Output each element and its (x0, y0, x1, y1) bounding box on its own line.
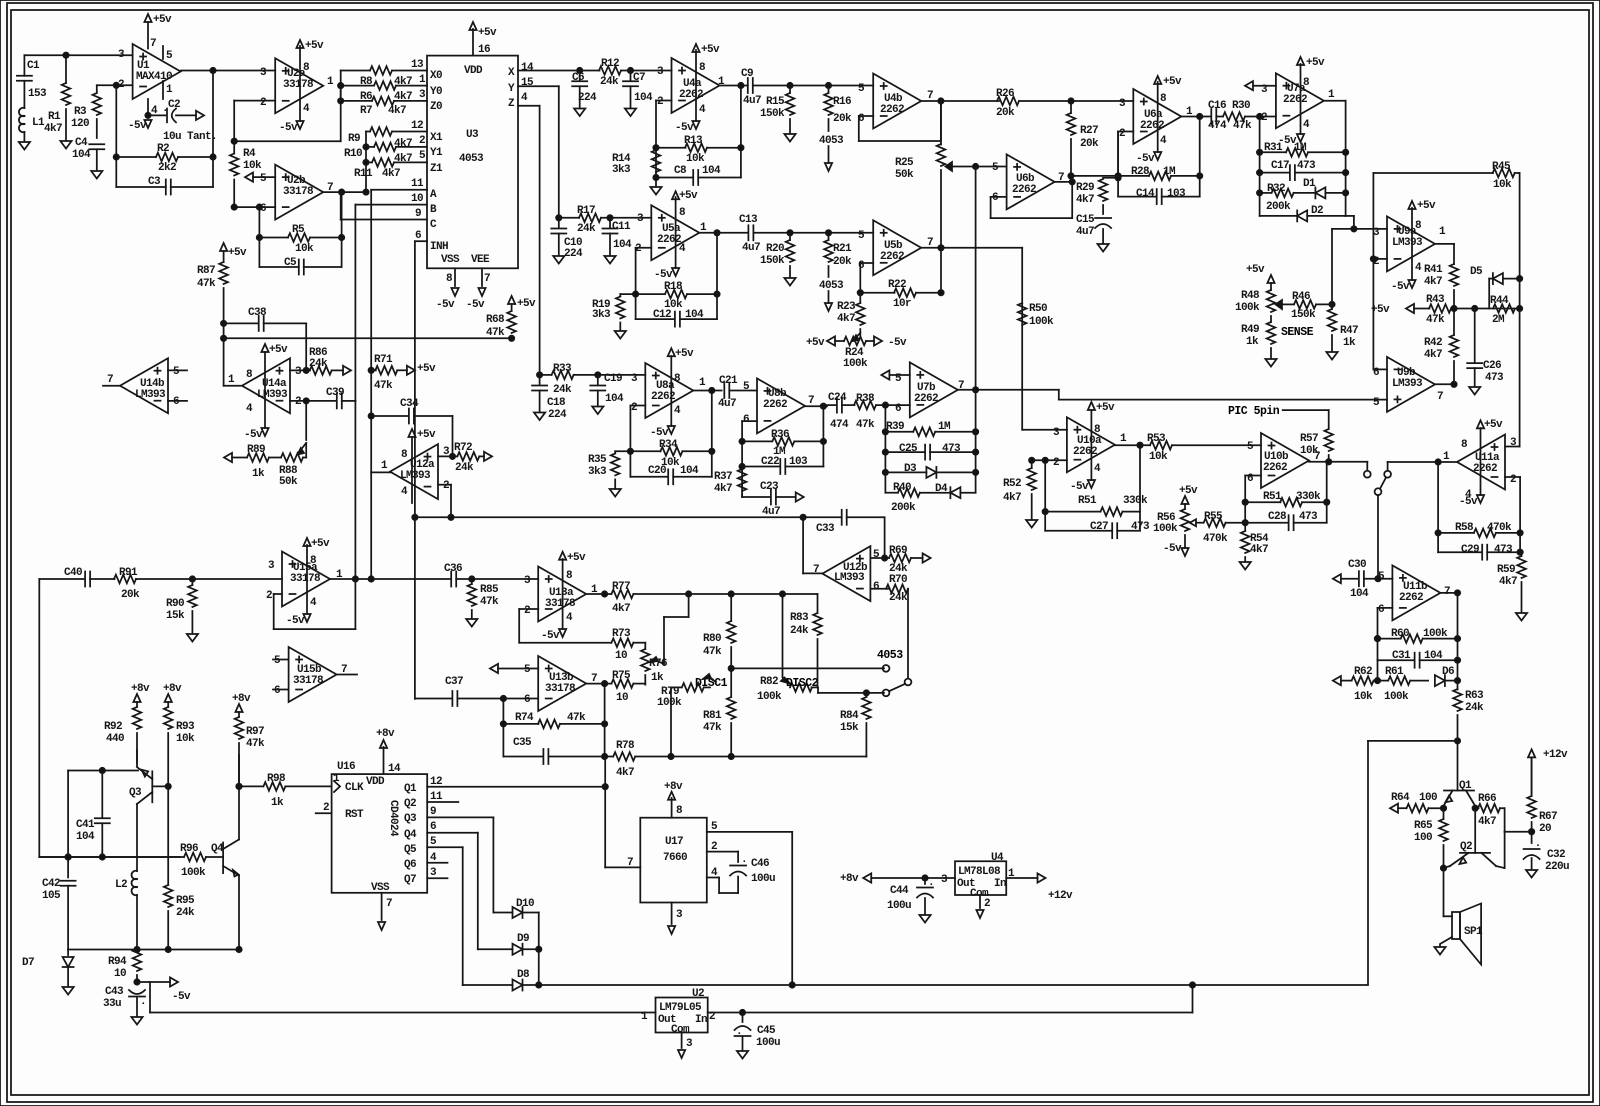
svg-text:4: 4 (711, 867, 718, 879)
svg-text:+5v: +5v (806, 337, 825, 349)
svg-text:8: 8 (1415, 220, 1422, 232)
svg-text:4: 4 (246, 403, 253, 415)
node dot C19 (595, 372, 600, 377)
resistor R21 (826, 230, 831, 235)
node wire -5v rail (68, 949, 239, 951)
4053 switch out (1366, 462, 1368, 470)
capacitor C22 (742, 466, 780, 468)
svg-text:5: 5 (524, 664, 531, 676)
resistor R8 (341, 70, 370, 72)
svg-text:104: 104 (613, 239, 632, 251)
U17 pin7 (605, 866, 640, 868)
node dot C11 (607, 215, 612, 220)
svg-text:.: . (140, 996, 146, 1008)
ground under R52 (1026, 520, 1037, 528)
+12v connector (1038, 873, 1046, 882)
DISC2 wire (818, 692, 884, 694)
svg-text:R20: R20 (766, 243, 784, 255)
wire R28 node up (1117, 132, 1119, 178)
capacitor C8 (656, 177, 693, 179)
U2b pin6 wire (234, 206, 275, 208)
svg-text:-5v: -5v (244, 429, 263, 441)
svg-text:3: 3 (1053, 427, 1060, 439)
diode D2 wire (1260, 215, 1298, 217)
feedback right riser (740, 86, 742, 178)
svg-text:8: 8 (303, 62, 310, 74)
svg-text:440: 440 (106, 733, 124, 745)
svg-text:C26: C26 (1483, 360, 1501, 372)
svg-text:R66: R66 (1478, 793, 1496, 805)
svg-text:6: 6 (430, 821, 436, 833)
L2 to rail (136, 895, 138, 950)
C30 connector (1333, 574, 1341, 583)
svg-text:13: 13 (411, 59, 424, 71)
svg-text:C36: C36 (444, 563, 462, 575)
svg-text:7: 7 (1444, 586, 1450, 598)
svg-text:16: 16 (478, 44, 490, 56)
ground under C18 (534, 413, 545, 421)
svg-text:47k: 47k (480, 596, 499, 608)
trimmer R76 (644, 643, 646, 649)
ground under C7 (625, 109, 636, 117)
U12a out wire (371, 471, 390, 473)
wire to U4b (790, 85, 873, 87)
Q2 base from R66 node (1474, 808, 1476, 853)
feedback right rail U7b (975, 390, 977, 493)
U14a pin2 wire (290, 400, 336, 402)
svg-text:24k: 24k (577, 223, 596, 235)
svg-text:R43: R43 (1426, 294, 1445, 306)
svg-text:Q4: Q4 (404, 829, 417, 841)
U8a -5v (668, 426, 675, 434)
resistor R73 (519, 642, 611, 644)
capacitor C18 (539, 375, 541, 385)
svg-text:104: 104 (72, 149, 91, 161)
svg-text:12: 12 (411, 120, 423, 132)
R69 connector (923, 553, 931, 562)
U13a feedback (519, 608, 538, 610)
svg-text:1: 1 (641, 1011, 648, 1023)
svg-text:R63: R63 (1465, 690, 1484, 702)
svg-text:3k3: 3k3 (588, 466, 607, 478)
U5a out wire (699, 232, 717, 234)
svg-text:R27: R27 (1080, 125, 1098, 137)
svg-text:100k: 100k (1153, 523, 1178, 535)
svg-text:Q3: Q3 (404, 813, 417, 825)
ground under R54 (1240, 562, 1251, 570)
U3 pin B wire (355, 204, 427, 206)
svg-text:X1: X1 (430, 132, 443, 144)
feedback right rail (1345, 101, 1347, 216)
ground under C45 (737, 1051, 748, 1059)
op-amp U4a (672, 58, 720, 113)
U14a out wire (224, 385, 242, 387)
svg-text:5: 5 (1247, 441, 1254, 453)
svg-text:3: 3 (295, 366, 302, 378)
svg-text:200k: 200k (891, 502, 916, 514)
svg-text:D9: D9 (517, 933, 529, 945)
svg-text:1: 1 (419, 74, 426, 86)
svg-text:C37: C37 (445, 676, 463, 688)
svg-text:.: . (1535, 838, 1541, 850)
resistor R1 (65, 55, 67, 83)
wire R46 node to U9a pin3 (1331, 229, 1333, 305)
svg-text:24k: 24k (309, 358, 328, 370)
svg-text:4053: 4053 (819, 280, 844, 292)
svg-text:47k: 47k (246, 738, 265, 750)
resistor R29 (1103, 177, 1118, 179)
capacitor C39 (336, 393, 338, 408)
svg-text:8: 8 (679, 207, 686, 219)
svg-text:4: 4 (1094, 463, 1101, 475)
svg-text:8: 8 (676, 805, 683, 817)
inductor L1 (19, 108, 24, 116)
svg-text:7: 7 (627, 857, 633, 869)
U16 RST pin2 (316, 812, 332, 814)
arrow to 4053 R16 (825, 163, 832, 171)
capacitor C11 (609, 218, 611, 228)
svg-text:R49: R49 (1241, 324, 1259, 336)
svg-text:In: In (994, 878, 1006, 890)
svg-text:4k7: 4k7 (1003, 492, 1021, 504)
resistor R87 (219, 262, 228, 284)
capacitor C29 (1438, 551, 1482, 553)
Q2 collector riser (1504, 832, 1506, 868)
svg-text:473: 473 (1299, 511, 1318, 523)
capacitor C40 wire (39, 578, 84, 580)
resistor R35 (615, 450, 630, 452)
op-amp U1 (133, 44, 181, 99)
capacitor C1 (23, 55, 25, 76)
IC U3 4053 box (427, 56, 518, 269)
U17 +8v (671, 798, 673, 818)
svg-text:R92: R92 (104, 721, 122, 733)
svg-text:11: 11 (411, 178, 424, 190)
svg-text:6: 6 (992, 192, 998, 204)
svg-text:C25: C25 (899, 443, 918, 455)
svg-text:B: B (430, 204, 437, 216)
U9a +5v (1411, 208, 1413, 280)
U13a +5v (562, 559, 564, 629)
svg-text:R41: R41 (1424, 264, 1443, 276)
resistor R72 (453, 455, 458, 457)
U10a -5v (1088, 480, 1095, 488)
U15a +5v (306, 545, 308, 614)
svg-text:2262: 2262 (1073, 446, 1097, 458)
U12a pin2 wire (438, 484, 451, 486)
ground under R49 (1265, 359, 1276, 367)
svg-text:R59: R59 (1497, 564, 1515, 576)
svg-text:R51: R51 (1078, 495, 1097, 507)
svg-text:2: 2 (323, 802, 329, 814)
U13b out wire (586, 683, 611, 685)
svg-text:R12: R12 (601, 58, 619, 70)
svg-text:C46: C46 (751, 858, 769, 870)
svg-text:R80: R80 (703, 633, 721, 645)
resistor R32 (1260, 192, 1272, 194)
svg-text:R94: R94 (108, 956, 127, 968)
svg-text:3: 3 (268, 560, 275, 572)
C33 right riser (884, 517, 886, 558)
svg-text:2: 2 (1119, 128, 1125, 140)
U14a -5v (261, 428, 268, 436)
resistor R11 (366, 161, 372, 163)
svg-text:2M: 2M (1492, 314, 1505, 326)
svg-text:5: 5 (173, 366, 180, 378)
R64 connector (1390, 804, 1398, 813)
svg-text:1: 1 (1120, 433, 1127, 445)
inductor L2 (132, 871, 137, 879)
resistor R7 (341, 100, 372, 102)
svg-text:473: 473 (1494, 544, 1513, 556)
svg-text:2: 2 (419, 135, 425, 147)
C38 riser to U14a pin3 (305, 323, 307, 370)
svg-text:R64: R64 (1391, 792, 1410, 804)
svg-text:R9: R9 (348, 133, 360, 145)
svg-text:CD4024: CD4024 (387, 800, 399, 837)
svg-text:33178: 33178 (283, 186, 314, 198)
svg-text:R50: R50 (1029, 303, 1047, 315)
svg-text:R55: R55 (1204, 511, 1223, 523)
resistor R69 (885, 557, 890, 559)
U16 VDD (383, 747, 385, 774)
capacitor C5 (258, 238, 260, 268)
op-amp U12a mirrored (390, 444, 438, 499)
R24 -5v arrow (874, 336, 882, 345)
capacitor C21 (723, 383, 725, 398)
wire to U5b (790, 232, 873, 234)
U7b pin5 connector (881, 370, 889, 379)
capacitor C42 (61, 880, 76, 882)
svg-text:C7: C7 (633, 72, 645, 84)
svg-text:R2: R2 (157, 143, 169, 155)
C23 connector (796, 492, 804, 501)
svg-text:470k: 470k (1487, 522, 1512, 534)
left bus corner (38, 579, 40, 857)
Q3 base wire (152, 785, 168, 787)
svg-text:-5v: -5v (128, 120, 147, 132)
svg-text:9: 9 (415, 208, 421, 220)
R46 wiper arrow (1276, 300, 1283, 309)
svg-text:+5v: +5v (1163, 76, 1182, 88)
resistor R9 (366, 131, 370, 133)
R71 +5v connector (407, 366, 415, 375)
svg-text:-5v: -5v (286, 615, 305, 627)
capacitor C38 (224, 322, 259, 324)
svg-text:R77: R77 (612, 581, 630, 593)
svg-text:4k7: 4k7 (1499, 576, 1517, 588)
svg-text:224: 224 (564, 248, 583, 260)
trimmer R88 (281, 453, 303, 462)
resistor R18 (636, 293, 665, 295)
svg-text:+5v: +5v (153, 14, 172, 26)
U8a feedback (630, 405, 645, 407)
U5a feedback riser (716, 233, 718, 319)
svg-text:2262: 2262 (1263, 462, 1287, 474)
svg-text:+12v: +12v (1048, 890, 1073, 902)
ground under C4 (91, 171, 102, 179)
svg-text:R67: R67 (1539, 811, 1557, 823)
svg-text:Z: Z (508, 98, 515, 110)
svg-text:C30: C30 (1348, 559, 1366, 571)
svg-text:2: 2 (266, 590, 272, 602)
resistor R86 (310, 366, 332, 375)
resistor R59 (1520, 552, 1521, 556)
wire U1 out to U2a (181, 70, 275, 72)
U3 VDD pin16 (472, 29, 474, 56)
resistor R64 (1407, 804, 1429, 813)
svg-text:+5v: +5v (417, 363, 436, 375)
resistor R54 (1244, 523, 1246, 531)
ground under C44 (919, 915, 930, 923)
U2b output wire (323, 191, 341, 193)
svg-text:+5v: +5v (269, 344, 288, 356)
svg-text:4k7: 4k7 (837, 313, 855, 325)
trimmer R25 (940, 101, 942, 145)
U2b pin5 connector (245, 173, 253, 182)
resistor R65 (1439, 819, 1448, 841)
op-amp U5a (651, 205, 699, 260)
svg-text:150k: 150k (760, 255, 785, 267)
U3 pin INH wire (415, 240, 427, 242)
node dot R33 (537, 372, 542, 377)
U12b pin5 wire (870, 557, 884, 559)
U11b right rail (1457, 593, 1459, 681)
svg-text:103: 103 (789, 456, 808, 468)
svg-text:R78: R78 (616, 740, 635, 752)
svg-text:1M: 1M (938, 421, 951, 433)
U9a pin3 wire (1332, 228, 1387, 230)
svg-text:R32: R32 (1267, 183, 1285, 195)
R43 +5v connector (1406, 304, 1414, 313)
resistor R17 (559, 217, 579, 219)
svg-text:10: 10 (114, 968, 126, 980)
feedback left rail (1437, 462, 1439, 552)
trimmer R82 (790, 683, 812, 692)
svg-text:D3: D3 (904, 463, 917, 475)
resistor R58 (1438, 532, 1474, 534)
svg-text:C24: C24 (828, 392, 847, 404)
svg-text:.: . (928, 877, 934, 889)
U11a out to switch (1387, 462, 1389, 471)
svg-text:PIC 5pin: PIC 5pin (1228, 405, 1280, 418)
U7b out wire (958, 389, 1059, 391)
resistor R38 (854, 401, 876, 410)
U12a +5v inside (411, 437, 413, 503)
U2a -5v (296, 121, 303, 129)
svg-text:R62: R62 (1354, 666, 1372, 678)
wire C31 node (1377, 660, 1379, 680)
svg-text:104: 104 (634, 92, 653, 104)
svg-text:8: 8 (1461, 439, 1468, 451)
svg-text:6: 6 (1378, 604, 1384, 616)
svg-text:D8: D8 (517, 969, 530, 981)
ground under speaker (1434, 947, 1445, 955)
U3 pin A wire (371, 189, 427, 191)
svg-text:Q5: Q5 (404, 844, 417, 856)
PIC 5pin wire (1283, 409, 1329, 411)
capacitor C19 (597, 375, 599, 385)
svg-text:5: 5 (1378, 571, 1385, 583)
op-amp U9b minus on top (1387, 357, 1435, 412)
svg-text:1: 1 (381, 460, 388, 472)
svg-text:474: 474 (830, 419, 849, 431)
U17 pin2 (707, 851, 738, 853)
svg-text:4u7: 4u7 (742, 242, 760, 254)
svg-text:+5v: +5v (417, 429, 436, 441)
U13a -5v (559, 629, 566, 637)
svg-text:R93: R93 (176, 721, 195, 733)
svg-text:+5v: +5v (1484, 419, 1503, 431)
U8b out wire (805, 405, 827, 407)
svg-text:4k7: 4k7 (616, 767, 634, 779)
svg-text:7: 7 (107, 374, 113, 386)
svg-text:2262: 2262 (914, 393, 938, 405)
U9b out wire (1435, 383, 1454, 385)
U12b out riser (802, 517, 804, 573)
svg-text:C12: C12 (653, 309, 671, 321)
svg-text:10k: 10k (1300, 445, 1319, 457)
IC U16 box (332, 774, 428, 893)
U3 pin X out (518, 70, 600, 72)
svg-text:24k: 24k (553, 384, 572, 396)
svg-text:+5v: +5v (478, 27, 497, 39)
U5a -5v (672, 268, 679, 276)
left vertical C42 (67, 771, 69, 878)
U4a -5v (692, 121, 699, 129)
op-amp U6b (1007, 154, 1055, 209)
svg-text:+5v: +5v (679, 190, 698, 202)
svg-text:1: 1 (327, 76, 334, 88)
capacitor C32 (1524, 848, 1540, 850)
ground under C10 (553, 256, 564, 264)
resistor R85 (471, 579, 473, 584)
bank bus vertical (365, 132, 367, 193)
resistor R39 (885, 431, 913, 433)
op-amp U8a (645, 363, 693, 418)
U12b pin6 wire (870, 588, 889, 590)
svg-text:100k: 100k (757, 691, 782, 703)
svg-text:C39: C39 (326, 387, 344, 399)
op-amp U4b (873, 74, 921, 129)
svg-text:24k: 24k (790, 625, 809, 637)
svg-text:SP1: SP1 (1464, 926, 1483, 938)
transistor Q4 (222, 843, 224, 874)
svg-text:7660: 7660 (663, 852, 687, 864)
svg-text:C31: C31 (1392, 650, 1411, 662)
trimmer R79 (671, 686, 682, 688)
svg-text:2262: 2262 (1283, 94, 1307, 106)
ground under R85 (466, 619, 477, 627)
svg-text:8: 8 (446, 273, 453, 285)
op-amp U13b (538, 656, 586, 711)
svg-text:3: 3 (941, 874, 948, 886)
svg-text:R16: R16 (833, 96, 851, 108)
svg-text:R95: R95 (176, 895, 195, 907)
svg-text:20k: 20k (833, 256, 852, 268)
svg-text:4k7: 4k7 (714, 483, 732, 495)
svg-text:5: 5 (419, 150, 426, 162)
svg-text:1: 1 (1439, 226, 1446, 238)
svg-text:L2: L2 (115, 879, 127, 891)
svg-text:R40: R40 (893, 482, 911, 494)
svg-text:R25: R25 (895, 157, 914, 169)
svg-text:4: 4 (401, 486, 408, 498)
svg-text:-5v: -5v (541, 630, 560, 642)
svg-text:2262: 2262 (1012, 184, 1036, 196)
capacitor C27 (1045, 530, 1111, 532)
node dot C10 (556, 215, 561, 220)
